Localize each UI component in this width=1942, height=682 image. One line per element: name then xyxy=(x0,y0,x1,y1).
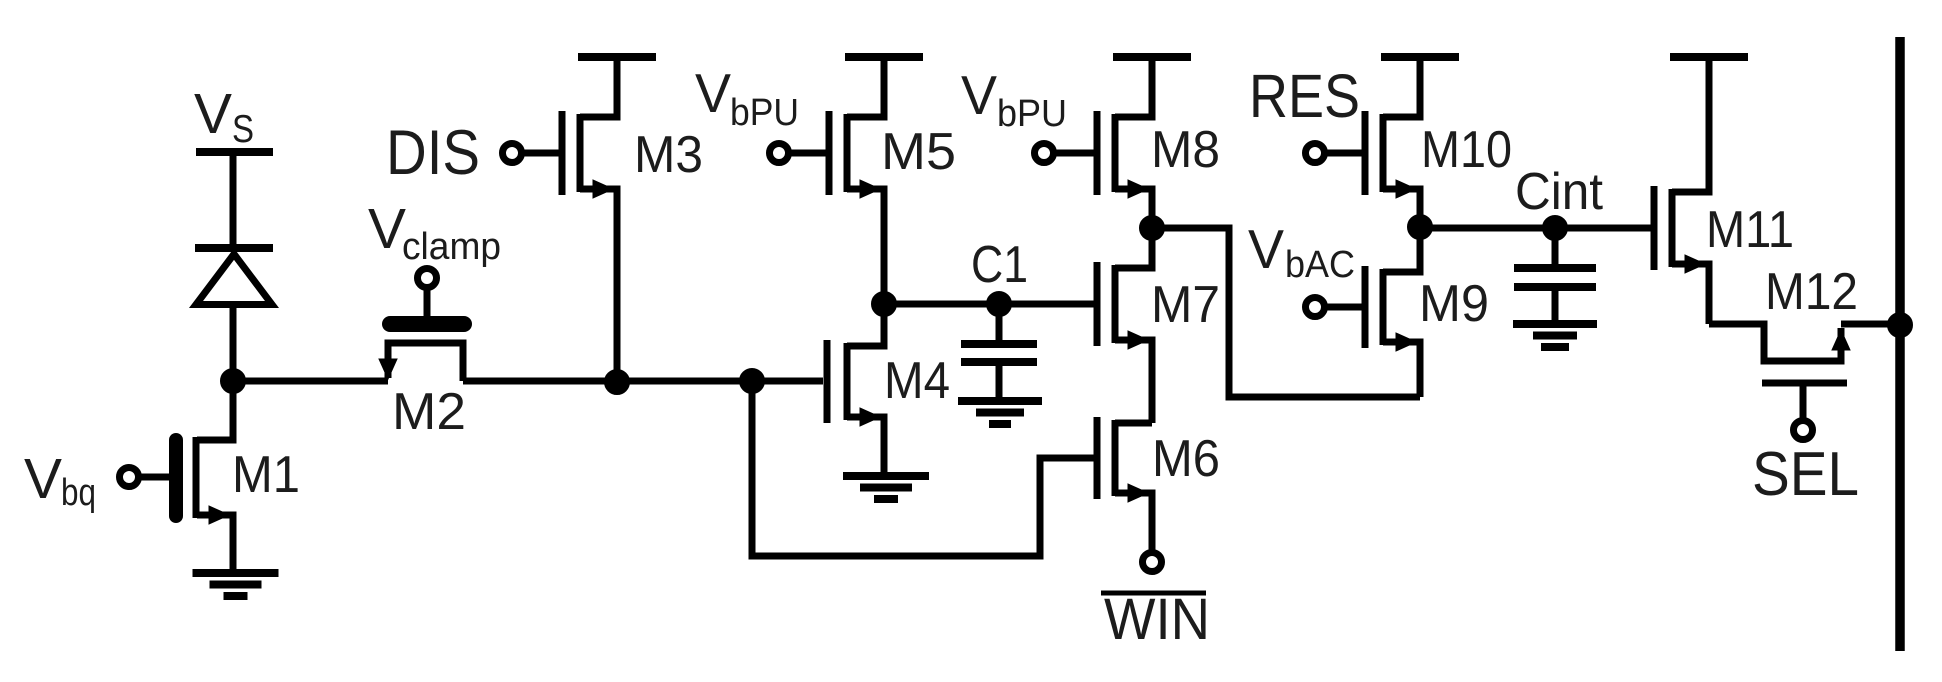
svg-text:V: V xyxy=(1248,218,1284,280)
svg-text:DIS: DIS xyxy=(386,118,480,188)
label M11 xyxy=(1706,201,1794,259)
photodiode D1 xyxy=(195,248,273,305)
svg-text:M7: M7 xyxy=(1151,276,1220,334)
capacitor Cint xyxy=(1514,228,1596,324)
label M6 xyxy=(1152,430,1220,488)
svg-text:M11: M11 xyxy=(1706,201,1794,259)
svg-text:M10: M10 xyxy=(1421,121,1512,179)
svg-text:bq: bq xyxy=(61,472,96,514)
label M12 xyxy=(1765,263,1858,321)
M9 gate terminal circle xyxy=(1306,298,1366,317)
svg-text:V: V xyxy=(695,62,731,124)
svg-text:M6: M6 xyxy=(1152,430,1220,488)
wire branch down from node to M6 gate xyxy=(752,381,1094,556)
svg-text:M1: M1 xyxy=(232,446,300,504)
M5 gate terminal circle xyxy=(770,144,830,163)
ground below M4 xyxy=(843,476,929,499)
label M4 xyxy=(884,352,950,410)
svg-text:M8: M8 xyxy=(1151,121,1220,179)
wire M2 drain to M4 gate xyxy=(463,378,823,385)
wire photodiode to node A xyxy=(230,303,237,381)
capacitor C1 xyxy=(961,304,1037,401)
label DIS xyxy=(386,118,480,188)
column bus wire xyxy=(1895,37,1905,651)
svg-text:RES: RES xyxy=(1249,62,1360,130)
svg-text:M2: M2 xyxy=(392,383,466,441)
junction M8 source / M7 drain xyxy=(1140,216,1165,241)
label WIN with overline xyxy=(1101,587,1210,652)
wire node A to M2 source xyxy=(233,378,388,385)
label SEL xyxy=(1752,440,1859,509)
svg-text:V: V xyxy=(24,447,62,511)
svg-text:bAC: bAC xyxy=(1285,244,1355,286)
transistor M12 (pass gate) xyxy=(1709,324,1850,420)
transistor M10 xyxy=(1365,57,1420,227)
wire M12 to column bus xyxy=(1841,321,1900,328)
label M9 xyxy=(1419,275,1489,333)
M3 gate terminal circle xyxy=(503,144,563,163)
svg-text:SEL: SEL xyxy=(1752,440,1859,509)
label M5 xyxy=(881,123,956,181)
junction below M3 xyxy=(605,370,630,395)
svg-text:M12: M12 xyxy=(1765,263,1858,321)
junction M5 source / M4 drain / C1 xyxy=(872,292,897,317)
wire VS to photodiode xyxy=(230,148,237,248)
ground below C1 xyxy=(958,401,1042,424)
WIN terminal circle xyxy=(1143,553,1162,572)
label RES xyxy=(1249,62,1360,130)
transistor M9 xyxy=(1365,227,1420,397)
label C1 xyxy=(971,236,1028,294)
transistor M4 xyxy=(827,305,884,472)
svg-text:V: V xyxy=(194,82,232,146)
wire C1 node to M7 gate xyxy=(884,301,1094,308)
svg-text:bPU: bPU xyxy=(997,93,1067,135)
node A junction xyxy=(221,369,246,394)
label M8 xyxy=(1151,121,1220,179)
wire M8/M7 node to M9 source rail xyxy=(1152,228,1420,397)
ground below M1 xyxy=(193,573,279,596)
M8 gate terminal circle xyxy=(1035,144,1098,163)
supply VS bar xyxy=(196,148,273,156)
label M1 xyxy=(232,446,300,504)
transistor M1 xyxy=(176,381,233,569)
transistor M2 (pass gate) xyxy=(379,288,464,381)
supply bar M8 xyxy=(1113,53,1191,61)
transistor M11 xyxy=(1654,57,1709,324)
supply bar M3 xyxy=(578,53,656,61)
label M7 xyxy=(1151,276,1220,334)
label M10 xyxy=(1421,121,1512,179)
label M2 xyxy=(392,383,466,441)
svg-text:M9: M9 xyxy=(1419,275,1489,333)
junction at M6 gate branch xyxy=(740,369,765,394)
label Vbq xyxy=(24,447,96,514)
transistor M7 xyxy=(1097,228,1152,423)
svg-text:Cint: Cint xyxy=(1515,163,1604,221)
transistor M3 xyxy=(562,57,617,382)
label VbPU (M5) xyxy=(695,62,799,134)
supply bar M5 xyxy=(845,53,923,61)
transistor M5 xyxy=(829,57,884,304)
svg-text:bPU: bPU xyxy=(730,92,799,134)
junction M12 to bus xyxy=(1888,313,1913,338)
M10 gate terminal circle xyxy=(1306,144,1366,163)
supply bar M10 xyxy=(1381,53,1459,61)
svg-text:WIN: WIN xyxy=(1104,587,1210,652)
label VbAC xyxy=(1248,218,1355,286)
svg-text:V: V xyxy=(961,64,997,126)
label VbPU (M8) xyxy=(961,64,1067,135)
supply bar M11 xyxy=(1670,53,1748,61)
label M3 xyxy=(634,126,703,184)
transistor M8 xyxy=(1097,57,1152,228)
svg-text:M5: M5 xyxy=(881,123,956,181)
label Vclamp xyxy=(368,197,501,268)
wire Cint node to M11 gate xyxy=(1420,225,1654,232)
svg-text:S: S xyxy=(232,108,254,151)
M12 gate terminal circle SEL xyxy=(1794,421,1813,440)
svg-text:V: V xyxy=(368,197,406,261)
ground below Cint xyxy=(1513,324,1597,347)
label Cint xyxy=(1515,163,1604,221)
svg-text:C1: C1 xyxy=(971,236,1028,294)
junction M10 source / M9 drain / Cint xyxy=(1408,215,1433,240)
label VS xyxy=(194,82,254,151)
junction at C1 xyxy=(987,292,1012,317)
svg-text:M3: M3 xyxy=(634,126,703,184)
M2 gate terminal circle Vclamp xyxy=(418,269,437,288)
M1 gate terminal circle xyxy=(120,468,170,487)
transistor M6 xyxy=(1097,417,1152,552)
svg-text:M4: M4 xyxy=(884,352,950,410)
junction at Cint xyxy=(1543,216,1568,241)
svg-text:clamp: clamp xyxy=(402,226,501,268)
